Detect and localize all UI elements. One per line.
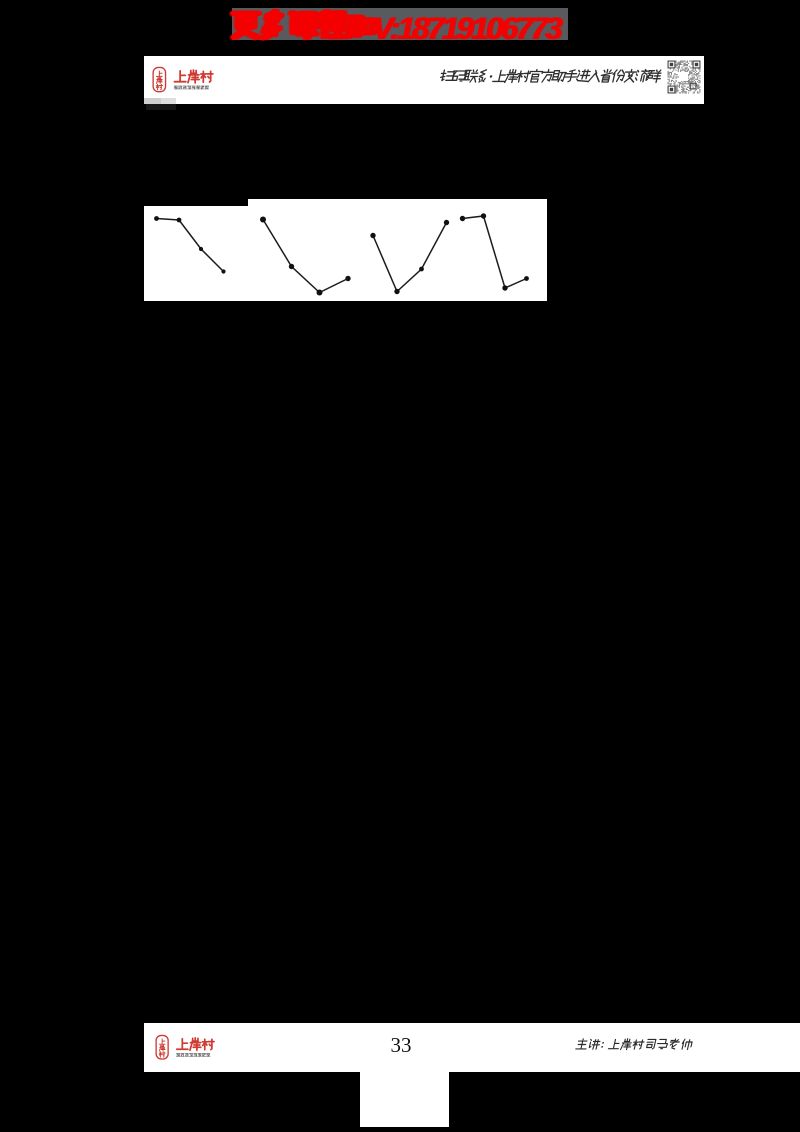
promo text 更多课程加V:18719106773 bbox=[228, 4, 578, 46]
header logo 上岸村 seal bbox=[149, 62, 269, 108]
doodle line 3 bbox=[370, 220, 449, 294]
doodle line 4 bbox=[460, 213, 529, 290]
chart panel large right bbox=[248, 199, 547, 302]
doodle line 1 bbox=[154, 216, 225, 274]
gray smudge below header left bbox=[144, 98, 161, 104]
header white bar bbox=[144, 56, 704, 104]
bottom white box bbox=[360, 1072, 449, 1128]
promo gray band bbox=[232, 8, 568, 41]
doodle line 2 bbox=[260, 217, 351, 296]
QR code bbox=[667, 60, 701, 96]
footer white bar bbox=[144, 1023, 800, 1071]
faint dark smudge bbox=[146, 104, 177, 110]
footer logo 上岸村 seal bbox=[152, 1030, 272, 1076]
doodles svg layer bbox=[140, 195, 560, 310]
header slogan 扫码联系·上岸村官方助手进入省份交流群 bbox=[430, 60, 675, 94]
footer credit 主讲：上岸村司马老帅 bbox=[570, 1034, 710, 1056]
svg-text:V:18719106773: V:18719106773 bbox=[374, 10, 564, 46]
page number 33 bbox=[388, 1033, 414, 1057]
chart panel small left bbox=[144, 206, 248, 301]
